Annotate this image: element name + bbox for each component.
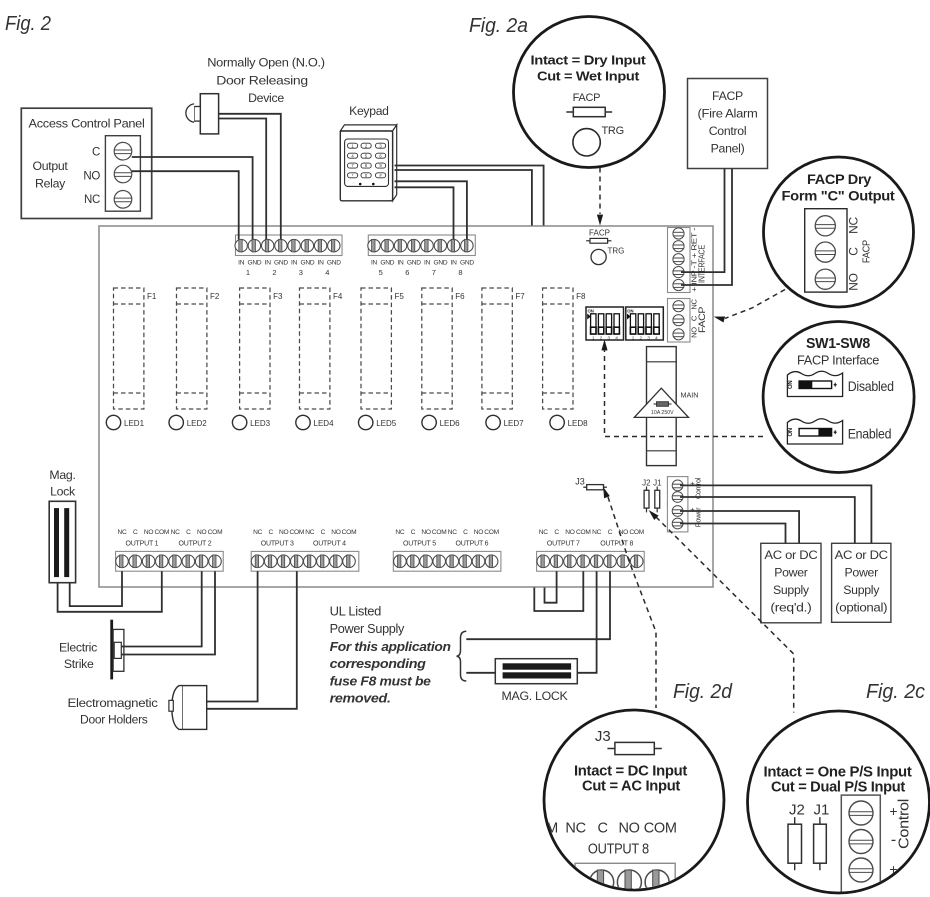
- wire mag lock right to OUTPUT1 NC: [70, 571, 122, 606]
- svg-text:(Fire Alarm: (Fire Alarm: [698, 107, 758, 121]
- svg-text:COM: COM: [432, 529, 447, 536]
- svg-text:COM: COM: [644, 821, 677, 837]
- svg-text:OUTPUT 1: OUTPUT 1: [125, 541, 158, 548]
- svg-text:NC: NC: [565, 821, 585, 837]
- svg-text:C: C: [186, 529, 191, 536]
- svg-text:Enabled: Enabled: [848, 426, 892, 442]
- fuse F5: [361, 288, 404, 409]
- wire power - to required supply: [680, 524, 786, 544]
- svg-text:corresponding: corresponding: [330, 656, 427, 671]
- FACP panel wire to INP+: [681, 169, 725, 273]
- svg-text:TRG: TRG: [608, 247, 625, 256]
- svg-text:NO: NO: [846, 273, 860, 290]
- svg-text:GND: GND: [327, 260, 341, 267]
- svg-text:Mag.: Mag.: [49, 468, 75, 482]
- svg-text:OUTPUT 8: OUTPUT 8: [588, 842, 649, 858]
- LED4: [296, 415, 334, 429]
- svg-text:IN: IN: [424, 260, 431, 267]
- brace for power supply wires: [457, 631, 467, 681]
- svg-text:3: 3: [299, 268, 303, 277]
- FACP terminal block: [668, 299, 707, 343]
- wire OUTPUT8 COM to UL supply: [466, 571, 610, 639]
- wire access panel NO to GND1...: [132, 171, 239, 239]
- svg-text:IN: IN: [451, 260, 458, 267]
- svg-text:C: C: [608, 529, 613, 536]
- Fig 2c detail circle: J2/J1 power input: [748, 711, 930, 897]
- wire door release device to GND2: [219, 119, 267, 240]
- svg-text:7: 7: [432, 268, 436, 277]
- svg-text:IN: IN: [291, 260, 298, 267]
- svg-text:Intact = Dry Input: Intact = Dry Input: [531, 53, 647, 68]
- SW1-SW8 detail circle: FACP interface switches: [763, 322, 914, 473]
- svg-text:Fig. 2a: Fig. 2a: [469, 15, 528, 37]
- svg-text:COM: COM: [629, 529, 644, 536]
- svg-text:removed.: removed.: [330, 691, 391, 706]
- svg-text:AC or DC: AC or DC: [835, 548, 888, 562]
- Electromagnetic Door Holder device: [68, 686, 207, 730]
- svg-text:OUTPUT 2: OUTPUT 2: [179, 541, 212, 548]
- wire door holder to OUTPUT3 NC: [207, 571, 258, 701]
- LED2: [169, 415, 207, 429]
- FACP (Fire Alarm Control Panel) box: [688, 79, 768, 169]
- svg-text:Output: Output: [32, 159, 68, 173]
- LED5: [359, 415, 397, 429]
- svg-text:Normally Open (N.O.): Normally Open (N.O.): [207, 56, 325, 70]
- svg-text:Door Releasing: Door Releasing: [216, 74, 308, 88]
- svg-text:OUTPUT 5: OUTPUT 5: [403, 541, 436, 548]
- wire access panel C to IN1: [132, 157, 253, 239]
- AC or DC Power Supply (optional) box: [832, 543, 891, 622]
- wire control - to optional supply: [680, 497, 855, 543]
- svg-text:Disabled: Disabled: [848, 378, 894, 394]
- MAIN fuse holder 10A 250V: [634, 347, 698, 466]
- svg-text:FACP: FACP: [861, 240, 873, 263]
- wire power + to required supply: [680, 511, 799, 543]
- svg-text:F8: F8: [576, 292, 586, 301]
- wire control + to optional supply: [680, 485, 871, 543]
- svg-text:LED6: LED6: [440, 419, 461, 428]
- svg-text:Fig. 2d: Fig. 2d: [673, 681, 733, 703]
- output terminal strip OUTPUT 3/4: [251, 529, 359, 571]
- svg-text:C: C: [92, 147, 100, 159]
- Keypad: [340, 104, 396, 201]
- svg-text:Cut = Wet Input: Cut = Wet Input: [537, 69, 640, 84]
- svg-text:C: C: [321, 529, 326, 536]
- wire loop under board to OUTPUT8 C: [534, 571, 583, 611]
- svg-text:LED2: LED2: [187, 419, 208, 428]
- svg-text:NC: NC: [395, 529, 405, 536]
- svg-text:F3: F3: [273, 292, 283, 301]
- svg-text:LED5: LED5: [376, 419, 397, 428]
- jumper J3: [575, 477, 607, 490]
- LED1: [106, 415, 144, 429]
- output terminal strip OUTPUT 1/2: [116, 529, 224, 571]
- svg-text:F6: F6: [455, 292, 465, 301]
- svg-text:COM: COM: [342, 529, 357, 536]
- svg-text:NC: NC: [253, 529, 263, 536]
- svg-text:GND: GND: [460, 260, 474, 267]
- wire OUTPUT8 NC loop under board: [545, 571, 557, 603]
- dashed arrow Fig 2b to FACP terminal: [725, 290, 785, 319]
- svg-text:OUTPUT 3: OUTPUT 3: [261, 541, 294, 548]
- input terminal strip IN/GND 5-8: [368, 235, 476, 277]
- fuse F3: [240, 288, 283, 409]
- svg-text:J2: J2: [789, 802, 805, 819]
- wire door release device to IN2: [219, 114, 281, 240]
- svg-text:NC: NC: [592, 529, 602, 536]
- svg-text:MAG. LOCK: MAG. LOCK: [502, 689, 569, 703]
- svg-text:fuse F8 must be: fuse F8 must be: [330, 673, 431, 688]
- svg-text:OUTPUT 6: OUTPUT 6: [455, 541, 488, 548]
- svg-text:NO: NO: [279, 529, 289, 536]
- svg-text:LED8: LED8: [568, 419, 589, 428]
- Fig 2b detail circle: FACP dry form C output: [764, 157, 914, 307]
- svg-text:NC: NC: [171, 529, 181, 536]
- svg-text:COM: COM: [289, 529, 304, 536]
- svg-text:FACP: FACP: [573, 92, 601, 104]
- svg-text:Electromagnetic: Electromagnetic: [68, 696, 158, 710]
- N.O. door releasing device (pushbutton): [186, 94, 219, 134]
- svg-text:MAIN: MAIN: [681, 391, 699, 400]
- svg-text:C: C: [133, 529, 138, 536]
- LED3: [232, 415, 270, 429]
- svg-text:NC: NC: [305, 529, 315, 536]
- svg-text:OUTPUT 8: OUTPUT 8: [600, 541, 633, 548]
- svg-text:F7: F7: [515, 292, 525, 301]
- svg-text:OUTPUT 4: OUTPUT 4: [313, 541, 346, 548]
- svg-text:Control: Control: [896, 799, 913, 849]
- wire OUTPUT8 NO to mag lock bottom: [577, 571, 596, 673]
- svg-text:IN: IN: [397, 260, 404, 267]
- svg-text:Keypad: Keypad: [349, 104, 389, 118]
- svg-text:COM: COM: [576, 529, 591, 536]
- svg-text:J1: J1: [813, 802, 829, 819]
- svg-text:Access Control Panel: Access Control Panel: [29, 117, 145, 131]
- svg-text:GND: GND: [300, 260, 314, 267]
- svg-text:GND: GND: [247, 260, 261, 267]
- input terminal strip IN/GND 1-4: [235, 235, 342, 277]
- Mag. Lock (left): [49, 468, 76, 583]
- svg-text:4: 4: [325, 268, 329, 277]
- svg-text:ON: ON: [588, 309, 594, 314]
- DIP switch block SW5-SW8: [626, 307, 664, 341]
- svg-text:FACP Dry: FACP Dry: [807, 172, 872, 187]
- svg-text:F2: F2: [210, 292, 220, 301]
- svg-text:Electric: Electric: [59, 641, 97, 655]
- svg-text:J3: J3: [575, 477, 585, 487]
- UL Listed Power Supply note: [330, 605, 452, 706]
- svg-text:NC: NC: [117, 529, 127, 536]
- output terminal strip OUTPUT 5/6: [393, 529, 501, 571]
- svg-text:Power: Power: [845, 566, 879, 580]
- svg-text:Device: Device: [248, 91, 284, 105]
- fuse F8: [543, 288, 586, 409]
- Access Control Panel box: [21, 108, 151, 218]
- svg-text:F1: F1: [147, 292, 157, 301]
- svg-text:6: 6: [405, 268, 409, 277]
- svg-text:Power: Power: [774, 566, 808, 580]
- svg-text:C: C: [463, 529, 468, 536]
- wire UL supply to mag lock bottom: [466, 672, 495, 674]
- jumper J1: [653, 479, 662, 513]
- dashed arrow Fig 2d to J3: [608, 497, 656, 708]
- svg-text:GND: GND: [274, 260, 288, 267]
- svg-text:Fig. 2c: Fig. 2c: [866, 681, 925, 703]
- svg-text:FACP: FACP: [712, 89, 743, 103]
- svg-text:NO: NO: [421, 529, 431, 536]
- svg-text:FACP Interface: FACP Interface: [797, 353, 879, 368]
- svg-text:ON: ON: [627, 309, 633, 314]
- fuse F2: [177, 288, 220, 409]
- LED6: [422, 415, 460, 429]
- svg-text:C: C: [554, 529, 559, 536]
- svg-text:Control: Control: [709, 124, 747, 138]
- svg-text:C: C: [598, 821, 608, 837]
- svg-text:LED1: LED1: [124, 419, 145, 428]
- dashed arrow Fig 2a to board: [599, 168, 601, 215]
- svg-text:(optional): (optional): [835, 601, 887, 615]
- AC or DC Power Supply (req'd.) box: [761, 543, 821, 623]
- svg-text:Form "C" Output: Form "C" Output: [782, 189, 896, 204]
- output terminal strip OUTPUT 7/8: [537, 529, 645, 571]
- svg-text:IN: IN: [265, 260, 272, 267]
- svg-text:NC: NC: [846, 217, 860, 234]
- svg-text:Cut = AC Input: Cut = AC Input: [582, 779, 681, 795]
- svg-text:GND: GND: [407, 260, 421, 267]
- svg-text:NO: NO: [474, 529, 484, 536]
- svg-text:Fig. 2: Fig. 2: [5, 12, 52, 35]
- svg-text:F4: F4: [333, 292, 343, 301]
- svg-text:LED4: LED4: [314, 419, 335, 428]
- svg-text:For this application: For this application: [330, 639, 452, 654]
- svg-text:C: C: [846, 247, 860, 256]
- svg-text:Cut = Dual P/S Input: Cut = Dual P/S Input: [771, 780, 906, 796]
- svg-text:Panel): Panel): [711, 142, 745, 156]
- svg-text:AC or DC: AC or DC: [764, 548, 817, 562]
- svg-text:COM: COM: [208, 529, 223, 536]
- svg-text:OUTPUT 7: OUTPUT 7: [547, 541, 580, 548]
- svg-text:Door Holders: Door Holders: [80, 713, 148, 727]
- svg-text:NC: NC: [448, 529, 458, 536]
- svg-text:J3: J3: [595, 728, 611, 745]
- svg-text:Supply: Supply: [843, 583, 880, 597]
- svg-text:J2: J2: [642, 479, 651, 488]
- wire electric strike to OUTPUT2 COM: [121, 571, 215, 654]
- fuse F7: [482, 288, 525, 409]
- svg-text:NO: NO: [144, 529, 154, 536]
- svg-text:Relay: Relay: [35, 177, 66, 191]
- svg-text:FACP: FACP: [589, 229, 610, 238]
- svg-text:2: 2: [272, 268, 276, 277]
- Fig 2d detail circle: J3 / OUTPUT 8: [544, 710, 724, 897]
- svg-text:Supply: Supply: [773, 583, 810, 597]
- svg-text:ON: ON: [788, 428, 794, 436]
- svg-text:TRG: TRG: [602, 125, 624, 137]
- svg-text:Control: Control: [694, 477, 703, 499]
- on-board FACP fuse: [586, 229, 611, 244]
- wire mag lock left to OUTPUT1 COM: [58, 571, 162, 612]
- svg-text:COM: COM: [154, 529, 169, 536]
- svg-text:ON: ON: [788, 381, 794, 389]
- svg-text:10A 250V: 10A 250V: [651, 410, 674, 416]
- keypad wire 4 to IN8: [395, 187, 454, 239]
- svg-text:NO: NO: [83, 171, 100, 183]
- svg-text:1: 1: [246, 268, 250, 277]
- fuse F6: [422, 288, 465, 409]
- svg-text:5: 5: [379, 268, 383, 277]
- svg-text:LED7: LED7: [504, 419, 525, 428]
- svg-text:SW1-SW8: SW1-SW8: [806, 336, 870, 352]
- jumper J2: [642, 479, 651, 513]
- svg-text:GND: GND: [380, 260, 394, 267]
- svg-text:NC: NC: [539, 529, 549, 536]
- dashed arrow Fig 2c to J2/J1: [656, 517, 794, 713]
- svg-text:Lock: Lock: [50, 485, 76, 499]
- svg-text:IN: IN: [318, 260, 325, 267]
- wire electric strike to OUTPUT2 NO: [121, 571, 202, 646]
- svg-text:NO: NO: [331, 529, 341, 536]
- svg-text:GND: GND: [433, 260, 447, 267]
- on-board TRG button: [591, 247, 624, 265]
- keypad wire 1: [395, 166, 544, 226]
- svg-text:8: 8: [458, 268, 462, 277]
- Access Control Panel output relay terminal (C/NO/NC): [105, 136, 140, 212]
- Fig 2a detail circle: FACP input: [514, 17, 665, 168]
- svg-text:FACP: FACP: [697, 307, 707, 333]
- svg-text:C: C: [411, 529, 416, 536]
- Normally Open Door Releasing Device labels: [207, 56, 325, 106]
- FACP panel wire to INP-: [681, 169, 732, 286]
- MAG. LOCK (bottom): [495, 659, 577, 703]
- DIP switch block SW1-SW4: [586, 307, 624, 341]
- svg-text:Intact = DC Input: Intact = DC Input: [574, 764, 688, 780]
- fuse F1: [114, 288, 157, 409]
- svg-text:LED3: LED3: [250, 419, 271, 428]
- LED7: [486, 415, 524, 429]
- Power/Control terminal block: [667, 477, 702, 532]
- svg-text:Strike: Strike: [64, 657, 94, 671]
- svg-text:INTERFACE: INTERFACE: [698, 244, 707, 283]
- INTERFACE terminal block: [668, 227, 707, 293]
- svg-text:COM: COM: [484, 529, 499, 536]
- svg-text:J1: J1: [653, 479, 662, 488]
- wire door holder to OUTPUT3 COM: [207, 571, 297, 709]
- svg-text:F5: F5: [395, 292, 405, 301]
- LED8: [550, 415, 588, 429]
- svg-text:NC: NC: [84, 194, 100, 206]
- svg-text:Power Supply: Power Supply: [330, 622, 406, 636]
- svg-text:IN: IN: [371, 260, 378, 267]
- svg-text:NO: NO: [565, 529, 575, 536]
- dashed arrow SW circle to DIP switches: [605, 350, 764, 437]
- keypad wire 2: [395, 170, 532, 226]
- Electric Strike: [59, 620, 124, 680]
- svg-text:NO: NO: [619, 821, 640, 837]
- svg-text:NO: NO: [197, 529, 207, 536]
- main board outline: [99, 226, 713, 587]
- svg-text:Intact = One P/S Input: Intact = One P/S Input: [764, 765, 913, 781]
- svg-text:(req'd.): (req'd.): [770, 601, 811, 615]
- svg-text:IN: IN: [238, 260, 245, 267]
- svg-text:C: C: [268, 529, 273, 536]
- svg-text:UL Listed: UL Listed: [330, 605, 382, 619]
- keypad wire 3 to GND8: [395, 181, 467, 239]
- fuse F4: [300, 288, 343, 409]
